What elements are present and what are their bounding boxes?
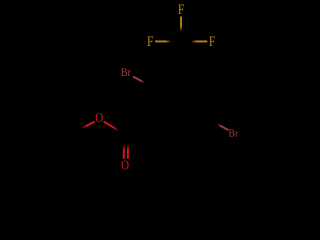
carbonyl C=O double bond line 2 (127, 136, 129, 159)
svg-text:O: O (95, 110, 103, 125)
bond CF3 carbon to F left (155, 40, 181, 42)
bond ring C6 to upper Br (133, 77, 154, 89)
svg-text:F: F (209, 33, 215, 50)
svg-text:F: F (178, 1, 184, 18)
bond ethyl CH2 to CH3 (45, 118, 72, 134)
benzene ring C1-C6 (154, 73, 208, 135)
bond ring C3 to lower Br (208, 119, 229, 130)
ring bond C3-C4 (181, 119, 208, 135)
bond ring C1 to CF3 carbon (180, 42, 182, 73)
aromatic inner line C5-C6 (157, 94, 159, 116)
svg-text:Br: Br (121, 67, 132, 80)
svg-text:F: F (147, 33, 153, 50)
ring bond C1-C2 (181, 73, 208, 89)
ring bond C2-C3 (207, 88, 209, 119)
svg-text:Br: Br (229, 128, 239, 140)
aromatic inner line C3-C4 (184, 120, 203, 131)
carbonyl C=O double bond line 1 (123, 136, 125, 159)
bond carbonyl C to ester O (104, 122, 127, 135)
svg-text:O: O (121, 157, 129, 172)
bond CF3 carbon to F top (180, 17, 182, 42)
ring bond C5-C6 (153, 88, 155, 119)
bond ester O to ethyl CH2 (72, 122, 95, 134)
aromatic inner line C1-C2 (183, 78, 202, 89)
ring bond C6-C1 (154, 73, 181, 89)
ring bond C4-C5 (154, 119, 181, 135)
bond CF3 carbon to F right (181, 40, 207, 42)
bond ring C5 to carbonyl carbon (126, 119, 154, 135)
